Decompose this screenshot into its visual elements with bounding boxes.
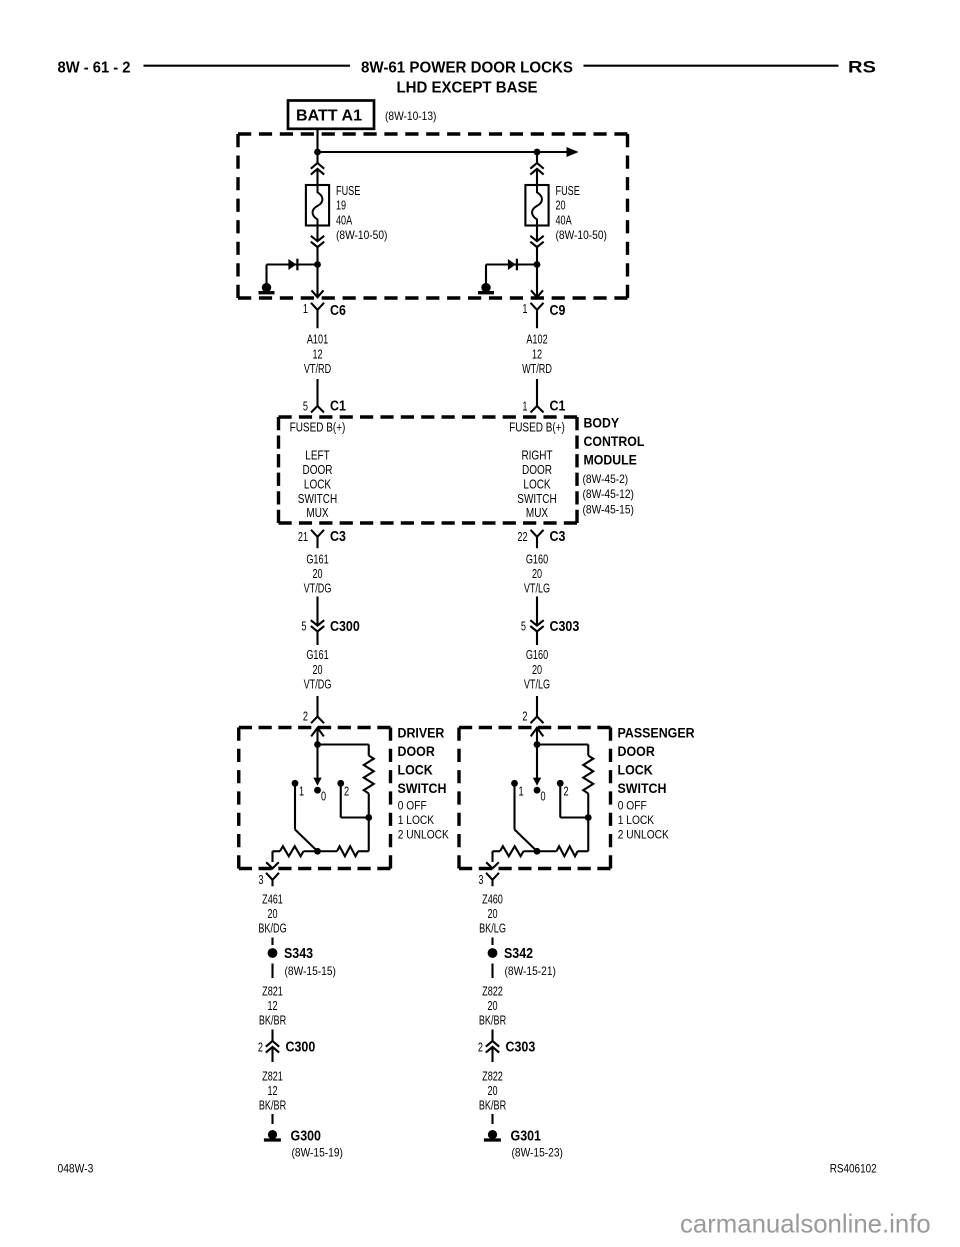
wire stub below S343	[271, 964, 273, 979]
svg-text:G161: G161	[306, 647, 328, 662]
svg-text:SWITCH: SWITCH	[517, 492, 556, 506]
svg-text:20: 20	[487, 1083, 497, 1098]
svg-text:(8W-15-19): (8W-15-19)	[292, 1146, 343, 1160]
connector C6 pin 1	[303, 301, 346, 328]
svg-text:2: 2	[344, 784, 349, 799]
component name PASSENGER DOOR LOCK SWITCH DOOR LOCK SWITCH	[618, 726, 695, 796]
svg-text:0: 0	[541, 789, 546, 804]
svg-text:A102: A102	[526, 332, 547, 347]
DRIVER switch wire from contact 1	[295, 787, 318, 852]
svg-text:Z460: Z460	[482, 891, 503, 906]
svg-text:(8W-45-2): (8W-45-2)	[583, 472, 629, 486]
svg-text:C300: C300	[286, 1040, 316, 1056]
PASSENGER switch wire to resistor	[537, 745, 588, 756]
svg-text:(8W-10-13): (8W-10-13)	[385, 109, 436, 123]
connector C3 pin 21	[298, 529, 346, 549]
wire BATT A1 to bus	[316, 129, 318, 152]
svg-text:Z822: Z822	[482, 984, 503, 999]
wire bus to fuse 20	[536, 152, 538, 185]
wire fuse 20 to connector C9	[536, 226, 538, 297]
connector pin 3 below S343	[258, 872, 279, 887]
svg-text:BK/BR: BK/BR	[479, 1013, 506, 1028]
junction dot left bus	[314, 149, 321, 156]
bus arrowhead	[567, 147, 579, 157]
svg-text:Z821: Z821	[262, 1069, 283, 1084]
svg-text:Z461: Z461	[262, 891, 283, 906]
connector C1 pin 1	[522, 399, 565, 415]
PASSENGER switch contact 0	[534, 787, 546, 804]
svg-text:40A: 40A	[556, 212, 572, 227]
ground reference (8W-15-23)	[512, 1146, 563, 1160]
svg-text:C1: C1	[550, 399, 566, 415]
svg-text:2: 2	[564, 784, 569, 799]
svg-text:1: 1	[522, 399, 527, 414]
wire label Z460/20/BK/LG	[479, 891, 506, 935]
PASSENGER switch exit wire	[486, 851, 499, 868]
arrowhead at connector C6	[312, 290, 324, 297]
splice reference (8W-15-15)	[285, 964, 336, 978]
DRIVER switch resistor left horizontal	[280, 846, 303, 856]
svg-text:BODY: BODY	[584, 415, 620, 431]
svg-text:VT/DG: VT/DG	[304, 581, 332, 596]
svg-text:21: 21	[298, 529, 308, 544]
svg-text:FUSE: FUSE	[556, 183, 581, 198]
svg-text:12: 12	[267, 1083, 277, 1098]
junction dot right bus	[534, 149, 541, 156]
svg-text:PASSENGER: PASSENGER	[618, 726, 695, 741]
header code RS	[848, 59, 876, 77]
svg-text:C303: C303	[506, 1040, 536, 1056]
svg-text:BK/BR: BK/BR	[479, 1098, 506, 1113]
wire to door lock switch	[316, 696, 318, 717]
svg-text:WT/RD: WT/RD	[522, 361, 552, 376]
body control module dashed box	[279, 417, 578, 523]
DRIVER switch position legend	[398, 799, 449, 842]
svg-text:FUSE: FUSE	[336, 183, 361, 198]
svg-text:22: 22	[517, 529, 527, 544]
DRIVER switch entry arrowhead	[311, 728, 324, 737]
in-line connector C303 pin 5	[521, 619, 579, 636]
svg-text:20: 20	[312, 662, 322, 677]
svg-text:CONTROL: CONTROL	[584, 433, 645, 449]
svg-text:(8W-45-12): (8W-45-12)	[583, 487, 634, 501]
svg-text:G301: G301	[511, 1128, 542, 1144]
DRIVER switch bus wire right	[358, 818, 369, 852]
wire label A101/12/VT/RD	[304, 332, 331, 376]
svg-text:(8W-45-15): (8W-45-15)	[583, 502, 634, 516]
PASSENGER switch junction top	[534, 741, 541, 748]
DRIVER switch resistor right horizontal	[337, 846, 358, 856]
diode feed C6	[267, 259, 318, 284]
svg-text:(8W-15-23): (8W-15-23)	[512, 1146, 563, 1160]
wire C300 pin 5 segment	[316, 597, 318, 646]
svg-text:2: 2	[303, 709, 308, 724]
door switch connector pin 2	[303, 709, 324, 724]
page title 8W-61 POWER DOOR LOCKS	[361, 60, 573, 77]
watermark carmanualsonline.info	[680, 1209, 931, 1239]
ground symbol in PDC near C9	[478, 283, 494, 293]
svg-text:1: 1	[522, 301, 527, 316]
door switch connector pin 2	[522, 709, 543, 724]
svg-text:C9: C9	[550, 303, 566, 319]
svg-text:8W-61 POWER DOOR LOCKS: 8W-61 POWER DOOR LOCKS	[361, 60, 573, 77]
PASSENGER switch contact 2	[557, 780, 569, 799]
PASSENGER switch bus junction	[534, 848, 541, 855]
svg-text:40A: 40A	[336, 212, 352, 227]
wire label G161/20/VT/DG lower	[304, 647, 332, 691]
BCM internal label RIGHT DOOR LOCK SWITCH MUX	[517, 449, 556, 521]
wire fuse 19 to connector C6	[316, 226, 318, 297]
svg-text:carmanualsonline.info: carmanualsonline.info	[680, 1209, 931, 1239]
svg-text:C1: C1	[330, 399, 346, 415]
PASSENGER switch wire from contact 2	[560, 787, 588, 818]
svg-text:RS: RS	[848, 59, 876, 77]
svg-text:19: 19	[336, 198, 346, 213]
svg-text:1: 1	[299, 784, 304, 799]
svg-text:3: 3	[478, 872, 483, 887]
footer part number RS406102	[830, 1164, 877, 1176]
DRIVER switch resistor vertical	[364, 756, 374, 794]
DRIVER switch resistor lower wire	[368, 794, 370, 818]
ground G301	[484, 1128, 541, 1144]
svg-text:2: 2	[522, 709, 527, 724]
svg-text:20: 20	[532, 566, 542, 581]
fuse 19 holder chevrons top	[311, 163, 324, 175]
svg-text:Z821: Z821	[262, 984, 283, 999]
DRIVER switch junction top	[314, 741, 321, 748]
wire label Z461/20/BK/DG	[258, 891, 286, 935]
svg-text:LHD EXCEPT BASE: LHD EXCEPT BASE	[397, 80, 538, 97]
PASSENGER switch contact 1	[511, 780, 523, 799]
fuse 20 value label	[556, 183, 607, 242]
svg-text:1 LOCK: 1 LOCK	[398, 813, 434, 827]
DRIVER switch bus wire middle	[304, 850, 338, 852]
component name BODY CONTROL MODULE	[584, 415, 645, 468]
svg-text:20: 20	[312, 566, 322, 581]
svg-text:048W-3: 048W-3	[58, 1164, 94, 1176]
fuse 19 holder chevrons bottom	[311, 236, 324, 247]
arrowhead at connector C9	[531, 290, 543, 297]
DRIVER switch contact 2	[337, 780, 349, 799]
svg-text:(8W-15-21): (8W-15-21)	[505, 964, 556, 978]
svg-text:12: 12	[312, 346, 322, 361]
svg-text:VT/LG: VT/LG	[524, 581, 550, 596]
svg-text:0 OFF: 0 OFF	[398, 799, 427, 813]
svg-text:2 UNLOCK: 2 UNLOCK	[398, 828, 449, 842]
svg-text:VT/RD: VT/RD	[304, 361, 331, 376]
PASSENGER switch resistor right horizontal	[557, 846, 578, 856]
ground G300	[264, 1128, 321, 1144]
svg-text:SWITCH: SWITCH	[618, 781, 667, 796]
svg-text:BK/BR: BK/BR	[259, 1098, 286, 1113]
connector C1 pin 5	[303, 399, 346, 415]
svg-text:20: 20	[532, 662, 542, 677]
wire label G160/20/VT/LG upper	[524, 551, 550, 595]
svg-text:3: 3	[258, 872, 263, 887]
ground symbol in PDC near C6	[259, 283, 275, 293]
PASSENGER switch bus wire middle	[524, 850, 557, 852]
svg-text:LOCK: LOCK	[304, 477, 332, 491]
BCM reference labels	[583, 472, 634, 516]
svg-text:20: 20	[487, 998, 497, 1013]
PASSENGER switch entry arrowhead	[531, 728, 544, 737]
power distribution center dashed box	[238, 134, 628, 298]
svg-text:C6: C6	[330, 303, 346, 319]
svg-text:BK/LG: BK/LG	[479, 921, 506, 936]
junction dot diode node C9	[534, 261, 541, 268]
svg-text:DRIVER: DRIVER	[398, 726, 445, 741]
DRIVER switch exit wire	[266, 851, 279, 868]
svg-text:C300: C300	[330, 619, 360, 635]
svg-text:VT/DG: VT/DG	[304, 676, 332, 691]
fuse 19	[306, 185, 329, 226]
svg-text:DOOR: DOOR	[398, 744, 436, 759]
BCM pin label FUSED B(+)	[290, 421, 346, 435]
wire to door lock switch	[536, 696, 538, 717]
svg-text:VT/LG: VT/LG	[524, 676, 550, 691]
wire A102 to BCM	[536, 379, 538, 406]
wire to in-line connector C303	[491, 1030, 493, 1063]
bus wire B(+)	[318, 151, 568, 153]
svg-text:SWITCH: SWITCH	[398, 781, 447, 796]
BCM pin label FUSED B(+)	[509, 421, 565, 435]
svg-text:G160: G160	[526, 551, 548, 566]
wire stub above G301	[491, 1114, 493, 1124]
wire stub below S342	[491, 964, 493, 979]
svg-text:S342: S342	[504, 946, 533, 962]
label (8W-10-13)	[385, 109, 436, 123]
wire label G161/20/VT/DG upper	[304, 551, 332, 595]
component name DRIVER DOOR LOCK SWITCH DOOR LOCK SWITCH	[398, 726, 447, 796]
PASSENGER switch entry wire	[536, 728, 538, 745]
DRIVER switch junction resistor	[365, 814, 372, 821]
wire C303 pin 5 segment	[536, 597, 538, 646]
PASSENGER switch resistor left horizontal	[500, 846, 524, 856]
svg-text:(8W-15-15): (8W-15-15)	[285, 964, 336, 978]
svg-text:2 UNLOCK: 2 UNLOCK	[618, 828, 669, 842]
svg-text:20: 20	[556, 198, 566, 213]
PASSENGER switch position legend	[618, 799, 669, 842]
PASSENGER switch bus wire right	[578, 818, 589, 852]
svg-text:1: 1	[303, 301, 308, 316]
svg-text:C3: C3	[330, 529, 346, 545]
footer sheet number 048W-3	[58, 1164, 94, 1176]
svg-text:A101: A101	[307, 332, 328, 347]
PASSENGER switch resistor vertical	[583, 756, 593, 794]
wire label Z822/20/BK/BR lower	[479, 1069, 506, 1113]
svg-text:(8W-10-50): (8W-10-50)	[556, 228, 607, 242]
wire to in-line connector C300	[271, 1030, 273, 1063]
svg-text:MUX: MUX	[526, 506, 549, 520]
splice S342	[488, 946, 533, 962]
svg-text:BK/BR: BK/BR	[259, 1013, 286, 1028]
svg-text:G161: G161	[306, 551, 328, 566]
svg-text:12: 12	[532, 346, 542, 361]
wire label Z821/12/BK/BR lower	[259, 1069, 286, 1113]
svg-text:5: 5	[301, 619, 306, 634]
svg-text:0: 0	[321, 789, 326, 804]
PASSENGER switch resistor lower wire	[587, 794, 589, 818]
DRIVER switch contact 1	[292, 780, 305, 799]
PASSENGER door lock switch dashed box	[459, 728, 611, 869]
DRIVER switch bus junction	[314, 848, 321, 855]
svg-text:0 OFF: 0 OFF	[618, 799, 647, 813]
wire stub above S342	[491, 938, 493, 946]
svg-text:BK/DG: BK/DG	[258, 921, 286, 936]
svg-text:20: 20	[267, 906, 277, 921]
DRIVER switch bus wire left	[273, 850, 281, 852]
wire label Z822/20/BK/BR upper	[479, 984, 506, 1028]
svg-text:S343: S343	[284, 946, 313, 962]
svg-text:DOOR: DOOR	[303, 463, 333, 477]
fuse 19 value label	[336, 183, 387, 242]
PASSENGER switch wire from contact 1	[515, 787, 538, 852]
svg-text:BATT A1: BATT A1	[296, 107, 362, 124]
svg-text:MUX: MUX	[306, 506, 329, 520]
svg-text:LOCK: LOCK	[618, 762, 653, 777]
ground reference (8W-15-19)	[292, 1146, 343, 1160]
wire label G160/20/VT/LG lower	[524, 647, 550, 691]
page number 8W - 61 - 2	[58, 60, 131, 77]
svg-text:C3: C3	[550, 529, 566, 545]
fuse 20 holder chevrons bottom	[530, 236, 543, 247]
svg-text:RS406102: RS406102	[830, 1164, 877, 1176]
wire A101 to BCM	[316, 379, 318, 406]
svg-text:2: 2	[478, 1040, 483, 1055]
connector C3 pin 22	[517, 529, 565, 549]
BCM internal label LEFT DOOR LOCK SWITCH MUX	[298, 449, 337, 521]
wire bus to fuse 19	[316, 152, 318, 185]
svg-text:FUSED B(+): FUSED B(+)	[509, 421, 565, 435]
wire label Z821/12/BK/BR upper	[259, 984, 286, 1028]
svg-text:1: 1	[519, 784, 524, 799]
DRIVER switch wire from contact 2	[341, 787, 369, 818]
in-line connector C300 pin 2	[258, 1040, 315, 1056]
PASSENGER switch bus wire left	[493, 850, 501, 852]
DRIVER door lock switch dashed box	[239, 728, 391, 869]
svg-text:C303: C303	[550, 619, 580, 635]
DRIVER switch wiper arm	[313, 745, 321, 786]
in-line connector C300 pin 5	[301, 619, 359, 636]
header rule left	[144, 65, 351, 67]
svg-text:DOOR: DOOR	[618, 744, 656, 759]
subtitle LHD EXCEPT BASE	[397, 80, 538, 97]
battery feed box BATT A1	[288, 101, 374, 129]
junction dot diode node C6	[314, 261, 321, 268]
DRIVER switch entry wire	[316, 728, 318, 745]
svg-text:LOCK: LOCK	[523, 477, 551, 491]
svg-text:LEFT: LEFT	[305, 449, 330, 463]
connector C9 pin 1	[522, 301, 565, 328]
fuse 20	[525, 185, 548, 226]
in-line connector C303 pin 2	[478, 1040, 535, 1056]
fuse 20 holder chevrons top	[530, 163, 543, 175]
svg-text:2: 2	[258, 1040, 263, 1055]
header rule right	[584, 65, 839, 67]
svg-text:5: 5	[521, 619, 526, 634]
svg-text:LOCK: LOCK	[398, 762, 433, 777]
splice reference (8W-15-21)	[505, 964, 556, 978]
svg-text:G160: G160	[526, 647, 548, 662]
svg-text:(8W-10-50): (8W-10-50)	[336, 228, 387, 242]
wire stub above S343	[271, 938, 273, 946]
wire label A102/12/WT/RD	[522, 332, 552, 376]
svg-text:5: 5	[303, 399, 308, 414]
splice S343	[268, 946, 314, 962]
diode feed C9	[486, 259, 537, 284]
svg-text:Z822: Z822	[482, 1069, 503, 1084]
svg-text:12: 12	[267, 998, 277, 1013]
svg-text:G300: G300	[291, 1128, 322, 1144]
svg-text:8W - 61 - 2: 8W - 61 - 2	[58, 60, 131, 77]
svg-text:20: 20	[487, 906, 497, 921]
connector pin 3 below S342	[478, 872, 499, 887]
svg-text:MODULE: MODULE	[584, 451, 637, 467]
svg-text:RIGHT: RIGHT	[521, 449, 552, 463]
DRIVER switch contact 0	[314, 787, 326, 804]
svg-text:1 LOCK: 1 LOCK	[618, 813, 654, 827]
PASSENGER switch wiper arm	[533, 745, 541, 786]
DRIVER switch wire to resistor	[318, 745, 369, 756]
PASSENGER switch junction resistor	[585, 814, 592, 821]
wire stub above G300	[271, 1114, 273, 1124]
svg-text:DOOR: DOOR	[522, 463, 552, 477]
svg-text:SWITCH: SWITCH	[298, 492, 337, 506]
svg-text:FUSED B(+): FUSED B(+)	[290, 421, 346, 435]
